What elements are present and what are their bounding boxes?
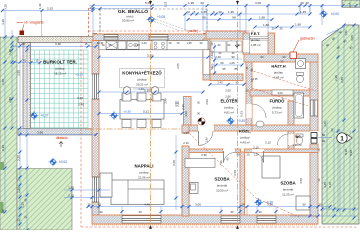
- svg-text:3,05: 3,05: [350, 35, 354, 41]
- stove burners: [154, 42, 157, 45]
- section line C horizontal: [85, 128, 182, 130]
- red dashed hip diagonal furdo 1: [250, 70, 316, 91]
- svg-text:5,15: 5,15: [47, 6, 53, 10]
- svg-text:1,00: 1,00: [19, 42, 25, 46]
- svg-text:2,10: 2,10: [253, 146, 259, 150]
- wall: hazt.h - furdo partition: [250, 90, 310, 96]
- svg-text:HÁZT.H: HÁZT.H: [271, 64, 285, 69]
- svg-text:2,10: 2,10: [183, 141, 189, 145]
- svg-text:F.E.T.: F.E.T.: [251, 32, 261, 36]
- svg-text:4,81 m²: 4,81 m²: [224, 111, 234, 115]
- kitchen width dimension: [99, 91, 203, 93]
- svg-text:5,53: 5,53: [240, 111, 244, 117]
- svg-text:1,00: 1,00: [183, 131, 189, 135]
- chimney symbol: [198, 118, 205, 125]
- svg-text:2,40: 2,40: [215, 55, 221, 59]
- svg-text:laminált: laminált: [283, 188, 294, 192]
- svg-text:4,40 m²: 4,40 m²: [240, 141, 250, 145]
- svg-text:1,80: 1,80: [295, 23, 301, 27]
- svg-text:3,20: 3,20: [1, 19, 5, 25]
- wall: nappali - szoba1 wall: [182, 146, 189, 216]
- terrace diagonal dim: [327, 27, 346, 35]
- label: vb. viragtarto: [17, 21, 24, 23]
- wall: west exterior middle: [92, 99, 99, 177]
- elevation marker carport +0,05: [147, 15, 156, 24]
- svg-text:járólap: járólap: [138, 171, 148, 175]
- wall: east exterior lower: [310, 144, 318, 216]
- svg-text:2,50: 2,50: [205, 99, 209, 105]
- svg-text:2,30: 2,30: [181, 104, 185, 110]
- svg-text:1,60: 1,60: [8, 49, 12, 55]
- terrace bottom dim: [20, 134, 96, 136]
- svg-text:dilatáció: dilatáció: [56, 136, 68, 140]
- wall: north exterior (east section): [244, 54, 318, 62]
- wall: nappali-kozl wall stub: [182, 125, 189, 133]
- svg-text:30: 30: [99, 210, 103, 214]
- svg-text:10: 10: [241, 202, 245, 206]
- door opening kozl-nappali side: [198, 125, 214, 131]
- dimension row top right 3: [188, 19, 272, 21]
- svg-text:60: 60: [322, 139, 326, 143]
- garden area bottom-left: [17, 169, 72, 231]
- bathtub furdo: [294, 93, 304, 118]
- plinth line below south wall: [92, 224, 318, 226]
- svg-text:KÖZL.: KÖZL.: [239, 129, 251, 134]
- svg-text:15: 15: [87, 202, 91, 206]
- wall: szoba1 - szoba2 wall: [240, 152, 245, 215]
- closet cabinets entry area: [211, 41, 226, 52]
- armchair nappali: [100, 173, 112, 197]
- dimension column right 1: [337, 28, 339, 210]
- svg-text:30: 30: [230, 210, 234, 214]
- svg-text:12,25 m²: 12,25 m²: [282, 193, 294, 197]
- svg-text:9,20: 9,20: [1, 145, 5, 151]
- svg-text:3,50: 3,50: [299, 178, 303, 184]
- projection vertical x42: [41, 11, 43, 37]
- flower box band top (vb. viragtarto): [18, 37, 96, 43]
- elevation marker south +0,30: [254, 198, 263, 207]
- door opening szoba1: [223, 149, 235, 152]
- svg-text:15: 15: [35, 59, 39, 63]
- svg-text:3,50: 3,50: [233, 170, 237, 176]
- svg-text:15: 15: [318, 202, 322, 206]
- chairs bottom row: [122, 120, 131, 128]
- svg-text:3,23: 3,23: [164, 1, 168, 7]
- sofa group nappali: [111, 180, 164, 205]
- elevation marker burkolt ter +0,27: [30, 111, 39, 120]
- svg-text:60: 60: [220, 61, 224, 65]
- window north wall 1: [104, 35, 118, 40]
- svg-text:30: 30: [305, 1, 309, 5]
- elevation marker kitchen +0,30: [110, 111, 119, 120]
- svg-text:1,05: 1,05: [229, 61, 235, 65]
- section arrows: [149, 1, 152, 5]
- washbasin furdo: [256, 121, 264, 127]
- green patch top-right corner: [342, 0, 360, 7]
- svg-text:1,50: 1,50: [344, 30, 348, 36]
- svg-text:+0,30: +0,30: [123, 110, 131, 114]
- bed szoba2: [262, 156, 280, 178]
- section line A vertical: [150, 0, 152, 229]
- wall: bedroom corridor wall mid: [235, 149, 241, 153]
- projection verticals top: [92, 4, 94, 34]
- wall: kozl north wall west part: [214, 125, 252, 131]
- elevation marker bottom left ±0,00: [49, 158, 58, 167]
- dimension row top left (y 10.5): [2, 10, 93, 12]
- svg-text:+0,30: +0,30: [237, 119, 245, 123]
- svg-text:járólap: járólap: [54, 67, 64, 71]
- door arc furdo: [252, 104, 266, 118]
- door arc szoba2: [252, 152, 264, 162]
- svg-text:98: 98: [232, 16, 236, 20]
- svg-text:30: 30: [1, 209, 5, 213]
- svg-text:2,10: 2,10: [265, 141, 271, 145]
- svg-text:3,30: 3,30: [55, 42, 61, 46]
- chairs top row: [122, 93, 131, 101]
- svg-text:padfej: padfej: [188, 29, 197, 33]
- svg-text:30: 30: [258, 210, 262, 214]
- svg-text:98: 98: [202, 16, 206, 20]
- svg-text:3,20: 3,20: [4, 4, 8, 10]
- door opening szoba2: [252, 149, 264, 152]
- detail marker circle 1: [347, 134, 353, 141]
- wall: west wall of entry closet: [203, 39, 210, 80]
- low wall at bottom of paved terrace: [18, 129, 96, 136]
- window south wall szoba1: [221, 216, 240, 223]
- door arc szoba1: [224, 152, 236, 162]
- svg-text:járólap: járólap: [250, 38, 260, 42]
- wall: south exterior: [92, 215, 318, 224]
- svg-text:15: 15: [84, 42, 88, 46]
- svg-text:30: 30: [300, 1, 304, 5]
- svg-text:2,40: 2,40: [176, 101, 180, 107]
- projection stubs south dims: [91, 207, 93, 216]
- svg-text:1,45: 1,45: [228, 10, 234, 14]
- svg-text:2,40: 2,40: [164, 98, 168, 104]
- svg-text:21,96 m²: 21,96 m²: [138, 176, 150, 180]
- svg-text:30: 30: [218, 10, 222, 14]
- svg-text:2,00: 2,00: [225, 89, 231, 93]
- shower furdo: [272, 90, 293, 95]
- svg-text:1,20: 1,20: [17, 187, 21, 193]
- garden strip left: [0, 37, 17, 230]
- svg-text:1,80: 1,80: [263, 23, 269, 27]
- dimension row top right 2: [185, 13, 310, 15]
- window south wall nappali: [122, 216, 161, 223]
- desk szoba1: [190, 183, 199, 194]
- dimension column right 3: [353, 25, 355, 218]
- wall: kitchen pantry wall: [184, 97, 192, 127]
- svg-text:FÜRDŐ: FÜRDŐ: [270, 99, 286, 104]
- svg-text:60: 60: [330, 128, 334, 132]
- svg-text:1,60: 1,60: [323, 121, 327, 127]
- svg-text:1,98 m²: 1,98 m²: [250, 43, 260, 47]
- svg-text:3,00: 3,00: [277, 91, 283, 95]
- svg-text:3,05: 3,05: [349, 2, 352, 7]
- svg-text:4,40: 4,40: [134, 43, 140, 47]
- window north wall 2: [149, 35, 168, 40]
- svg-text:30: 30: [210, 42, 214, 46]
- interior dims eloter cluster extra: [214, 43, 216, 73]
- svg-text:2,20: 2,20: [334, 75, 338, 81]
- svg-text:2,40: 2,40: [210, 53, 214, 59]
- svg-text:1,10: 1,10: [253, 152, 259, 156]
- wardrobe szoba2: [296, 196, 310, 210]
- wall: F.E.T. west wall: [243, 33, 250, 54]
- svg-text:30: 30: [279, 27, 283, 31]
- svg-text:járólap: járólap: [271, 106, 281, 110]
- svg-text:4,40: 4,40: [144, 202, 150, 206]
- svg-text:SZOBA: SZOBA: [214, 177, 230, 182]
- toilet hazt.h: [297, 73, 304, 76]
- svg-text:20,83 m²: 20,83 m²: [122, 18, 134, 22]
- column left kitchen: [123, 87, 131, 95]
- wall: north wall of entry closet: [206, 31, 246, 39]
- svg-text:55: 55: [222, 67, 226, 71]
- dimension column right 2: [343, 25, 345, 210]
- svg-text:5: 5: [213, 10, 215, 14]
- svg-text:KONYHA+ÉTKEZŐ: KONYHA+ÉTKEZŐ: [122, 71, 162, 76]
- svg-text:2,05: 2,05: [176, 63, 180, 69]
- svg-text:2,50: 2,50: [201, 153, 207, 157]
- svg-text:3,50: 3,50: [8, 97, 12, 103]
- kitchen lower dimension: [99, 113, 182, 115]
- column right kitchen: [151, 87, 159, 95]
- F.E.T. north glazing: [250, 37, 268, 41]
- svg-text:70: 70: [22, 59, 26, 63]
- svg-text:ELŐTÉR: ELŐTÉR: [221, 99, 238, 104]
- svg-text:1,80: 1,80: [259, 16, 265, 20]
- svg-text:3,50: 3,50: [184, 111, 188, 117]
- wall: F.E.T. east wall: [268, 33, 275, 54]
- washing machine hazt.h: [296, 59, 306, 69]
- dimension column left 1: [4, 11, 6, 213]
- svg-text:+0,27: +0,27: [41, 114, 49, 118]
- wall: bedroom corridor wall west: [182, 149, 223, 153]
- svg-text:2,25: 2,25: [17, 155, 21, 161]
- dimension line small left: [14, 62, 40, 64]
- dimension row top main: [89, 5, 356, 7]
- svg-text:±0,00: ±0,00: [331, 12, 339, 16]
- svg-text:1,35: 1,35: [186, 41, 192, 45]
- red dashed roof line top horizontal: [89, 30, 256, 32]
- svg-text:30: 30: [97, 202, 101, 206]
- svg-text:10,50 m²: 10,50 m²: [216, 189, 228, 193]
- svg-text:3,00: 3,00: [255, 1, 261, 5]
- svg-text:4,48 m²: 4,48 m²: [273, 76, 283, 80]
- wall: kozl north wall stub: [189, 125, 198, 131]
- svg-text:1,45: 1,45: [201, 10, 207, 14]
- dimension row top center short: [89, 8, 152, 10]
- window west wall (kitchen to terrace): [92, 74, 99, 99]
- door opening furdo: [246, 104, 252, 118]
- svg-text:4,40: 4,40: [141, 41, 147, 45]
- svg-text:5,10: 5,10: [144, 88, 150, 92]
- elevation marker top right ±0,00: [319, 10, 328, 19]
- svg-text:4,10: 4,10: [328, 182, 332, 188]
- red dashed roof line left vertical: [88, 8, 90, 36]
- svg-text:30: 30: [271, 27, 275, 31]
- svg-text:8,90: 8,90: [349, 150, 353, 156]
- dimension row top right 4: [255, 26, 310, 28]
- svg-text:18,15 m²: 18,15 m²: [54, 72, 66, 76]
- wall: eloter-furdo wall: [246, 62, 252, 125]
- svg-text:1,45: 1,45: [300, 10, 306, 14]
- door opening entry (F.E.T. to closet): [243, 40, 249, 52]
- svg-text:5,73 m²: 5,73 m²: [272, 111, 282, 115]
- projection stubs top right: [245, 6, 247, 14]
- svg-text:3,60: 3,60: [1, 79, 5, 85]
- dresser szoba1: [185, 159, 215, 168]
- dashed guide lines from carport marker: [154, 22, 181, 32]
- wall: kozl north wall east part: [252, 125, 310, 131]
- section line B vertical: [237, 0, 239, 229]
- svg-text:3,60: 3,60: [77, 96, 83, 100]
- kitchen label frame: [120, 69, 165, 88]
- svg-text:3,40: 3,40: [38, 3, 42, 9]
- svg-text:1: 1: [340, 135, 344, 142]
- dimension column left 4: [26, 46, 28, 230]
- door arc kozl-nappali: [199, 131, 214, 146]
- svg-text:2,60: 2,60: [225, 95, 231, 99]
- dimension column left 3: [19, 46, 21, 230]
- terrace green right: [322, 25, 359, 224]
- svg-text:30: 30: [138, 210, 142, 214]
- door arc wc: [277, 134, 288, 145]
- svg-text:3,96: 3,96: [37, 131, 43, 135]
- dimension row bottom 1: [88, 206, 330, 208]
- red dashed hip diagonal furdo 2: [252, 88, 308, 106]
- svg-text:7,10: 7,10: [219, 160, 223, 166]
- svg-text:vb. virágtartó: vb. virágtartó: [24, 21, 44, 25]
- svg-text:30: 30: [302, 202, 306, 206]
- bottom-left step dims: [64, 189, 110, 191]
- flower box band vertical: [23, 43, 31, 129]
- svg-text:járólap: járólap: [223, 106, 233, 110]
- window east wall furdo: [310, 100, 317, 116]
- svg-text:4,45: 4,45: [323, 182, 327, 188]
- dilatacio arrow: [59, 142, 63, 148]
- svg-text:+0,05: +0,05: [157, 15, 165, 19]
- svg-text:5,21: 5,21: [143, 110, 149, 114]
- carport post right: [203, 33, 208, 38]
- red dashed roof line bottom horizontal: [81, 226, 358, 228]
- wall: west exterior lower: [92, 202, 99, 216]
- red dashed hip diagonal bottom right: [256, 198, 299, 217]
- dining table: [120, 100, 164, 120]
- svg-text:1,98 m²: 1,98 m²: [292, 143, 302, 147]
- svg-text:gázkazán: gázkazán: [300, 37, 315, 41]
- svg-text:10: 10: [245, 89, 249, 93]
- svg-text:90: 90: [231, 55, 235, 59]
- svg-text:3,00: 3,00: [195, 202, 201, 206]
- svg-text:WC: WC: [295, 135, 301, 139]
- svg-text:90: 90: [210, 66, 214, 70]
- svg-text:2,85: 2,85: [340, 77, 344, 83]
- svg-text:1,55: 1,55: [21, 202, 25, 208]
- wall: east exterior upper: [310, 57, 318, 131]
- svg-text:±0,00: ±0,00: [59, 160, 67, 164]
- wall: furdo - wc partition upper: [288, 101, 294, 125]
- svg-text:+0,30: +0,30: [265, 201, 273, 205]
- svg-text:1,90: 1,90: [205, 137, 209, 143]
- dimension line flowerbox: [12, 45, 96, 47]
- carport post left: [93, 33, 98, 38]
- door opening wc: [288, 134, 294, 145]
- svg-text:járólap: járólap: [136, 78, 146, 82]
- terrace dims right: [322, 208, 358, 210]
- red dashed hip diagonal szoba1: [187, 131, 256, 198]
- toilet wc: [296, 134, 303, 137]
- svg-text:BURKOLT TER.: BURKOLT TER.: [43, 60, 77, 65]
- window south wall szoba2: [257, 216, 276, 223]
- dark green shrubs left edge: [0, 162, 4, 170]
- wall: closet / eloter partition: [210, 74, 243, 81]
- svg-text:20: 20: [186, 10, 190, 14]
- wall: north exterior (kitchen section): [93, 34, 209, 41]
- wall: west exterior upper: [92, 41, 99, 75]
- window west wall (nappali): [92, 177, 99, 202]
- svg-text:SZOBA: SZOBA: [280, 181, 296, 186]
- arrow at entry: [235, 41, 239, 47]
- svg-text:8,30: 8,30: [344, 149, 348, 155]
- kitchen counter with appliances: [99, 40, 210, 75]
- wall: bedroom corridor wall east: [245, 149, 319, 153]
- svg-text:3,50: 3,50: [17, 70, 21, 76]
- svg-text:1,95: 1,95: [188, 1, 194, 5]
- terrace french door leaves: [311, 133, 317, 138]
- svg-text:+0,30: +0,30: [75, 73, 83, 77]
- svg-text:2,40: 2,40: [217, 81, 223, 85]
- dimension column left 2: [11, 30, 13, 128]
- svg-text:30: 30: [200, 1, 204, 5]
- carport dashed outline (GK. BEALLO): [100, 8, 207, 10]
- elevation marker eloter +0,30: [226, 117, 235, 126]
- svg-text:60: 60: [322, 133, 326, 137]
- svg-text:3,60: 3,60: [172, 160, 176, 166]
- svg-text:5: 5: [194, 10, 196, 14]
- wall: kozl - wc partition: [288, 131, 294, 150]
- paved terrace tile grid (BURKOLT TER.): [28, 50, 88, 129]
- terrace door opening east wall: [310, 131, 318, 144]
- door arc entry: [231, 40, 243, 52]
- svg-text:járólap: járólap: [273, 71, 283, 75]
- svg-text:járólap: járólap: [239, 136, 249, 140]
- svg-text:laminált: laminált: [217, 184, 228, 188]
